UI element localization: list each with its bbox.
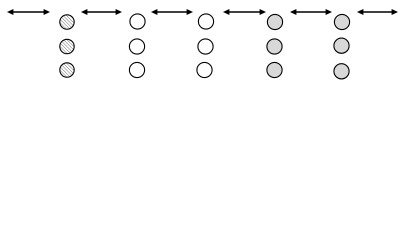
node D2 (gray circle col4 row2) xyxy=(267,39,282,54)
wire arrow 1 (double-headed, far left) xyxy=(7,9,50,15)
node E3 (gray circle col5 row3) xyxy=(334,64,349,79)
wire arrow 2 xyxy=(81,9,122,15)
node C3 (white circle col3 row3) xyxy=(197,62,212,77)
node D1 (gray circle col4 row1) xyxy=(267,14,282,29)
node A1 (hatched circle col1 row1) xyxy=(60,15,74,29)
node C1 (white circle col3 row1) xyxy=(198,14,213,29)
node A2 (hatched circle col1 row2) xyxy=(60,39,74,53)
node E1 (gray circle col5 row1) xyxy=(334,14,349,29)
node C2 (white circle col3 row2) xyxy=(198,39,213,54)
wire arrow 6 (far right) xyxy=(357,9,398,15)
node B3 (white circle col2 row3) xyxy=(129,62,144,77)
wire arrow 4 xyxy=(223,9,266,15)
node B1 (white circle col2 row1) xyxy=(130,14,145,29)
node E2 (gray circle col5 row2) xyxy=(334,38,349,53)
node A3 (hatched circle col1 row3) xyxy=(60,63,74,77)
wire arrow 3 xyxy=(151,9,193,15)
node B2 (white circle col2 row2) xyxy=(129,39,144,54)
wire arrow 5 xyxy=(290,9,332,15)
node D3 (gray circle col4 row3) xyxy=(267,62,282,77)
